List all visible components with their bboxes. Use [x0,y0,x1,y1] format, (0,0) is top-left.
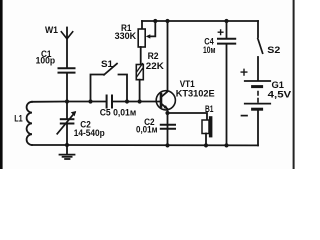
node junction top rail left [153,19,157,23]
resistor R1 potentiometer [141,21,143,29]
node tank bottom [65,143,69,147]
svg-text:22K: 22K [146,60,164,71]
svg-text:S2: S2 [267,44,280,55]
node emitter bottom [165,143,169,147]
minus sign G1 [242,115,248,117]
node emitter [165,111,169,115]
svg-text:C5 0,01м: C5 0,01м [100,106,137,117]
svg-text:100p: 100p [36,55,56,66]
wire top rail [142,20,258,22]
plus sign C4 [218,30,223,35]
capacitor C5 [106,96,108,108]
wire R1 to R2 [140,47,142,65]
svg-text:L1: L1 [14,112,23,123]
svg-text:14-540p: 14-540p [74,127,105,138]
earphone B1 [168,113,208,120]
node S1 right [125,99,129,103]
plus sign G1 [241,69,247,75]
svg-text:S1: S1 [101,58,113,69]
capacitor C4 [226,21,228,38]
svg-text:KT3102E: KT3102E [176,88,215,99]
svg-text:10м: 10м [203,44,216,55]
capacitor C1 [59,67,75,69]
node C4 bottom [224,143,228,147]
svg-text:W1: W1 [45,24,58,35]
svg-text:B1: B1 [205,103,214,114]
border left bar [0,0,3,169]
node base [138,99,142,103]
wire bottom rail [32,144,258,146]
node S1 left [88,99,92,103]
node tank top [65,99,69,103]
wire tank top rail [32,101,106,103]
battery G1 [245,80,270,82]
svg-text:0,01м: 0,01м [136,124,158,135]
node junction top rail mid [165,19,169,23]
switch S1 [91,75,105,102]
node junction top rail right [224,19,228,23]
antenna W1 [66,28,68,68]
svg-text:4,5V: 4,5V [268,89,292,100]
capacitor C2 emitter [161,124,175,126]
capacitor C2 variable [66,102,68,119]
wire C1 to tank node [66,74,68,102]
inductor L1 [27,102,32,145]
ground [66,145,68,154]
transistor VT1 [156,91,175,110]
resistor R2 [136,65,143,80]
switch S2 [257,21,259,37]
node B1 bottom [204,143,208,147]
border right line [293,0,295,169]
svg-text:330K: 330K [115,30,137,41]
